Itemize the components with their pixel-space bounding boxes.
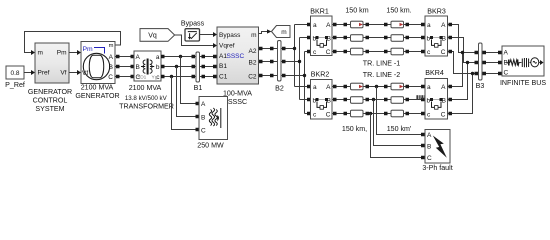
block U1 generator control system (35, 43, 69, 83)
svg-text:b: b (427, 98, 431, 105)
wire: tap C to load C (172, 77, 200, 132)
svg-text:SSSC: SSSC (228, 98, 247, 106)
svg-text:B: B (201, 115, 205, 122)
wire: Vq to SSSC Vqref (175, 35, 217, 48)
block bypass source (185, 29, 200, 41)
svg-text:INFINITE BUS: INFINITE BUS (500, 79, 546, 87)
svg-text:B2: B2 (249, 60, 257, 67)
breaker BKR3 (425, 16, 448, 56)
wire: BKR4 A up to bus row A (448, 51, 465, 88)
svg-text:A: A (427, 132, 432, 139)
wire: gen B to transformer B (115, 65, 134, 69)
block T1 transformer 2100 MVA (134, 51, 161, 81)
svg-text:C: C (201, 128, 206, 135)
svg-text:B2: B2 (275, 85, 284, 93)
block G1 synchronous generator 2100 MVA (81, 42, 115, 84)
svg-text:A: A (201, 101, 206, 108)
svg-text:A: A (441, 84, 446, 91)
svg-text:A: A (136, 54, 141, 61)
svg-text:P_Ref: P_Ref (5, 81, 25, 89)
svg-text:C: C (504, 70, 509, 77)
svg-text:B: B (427, 144, 431, 151)
svg-text:b: b (156, 64, 160, 71)
label generator (75, 84, 119, 100)
svg-text:GENERATOR: GENERATOR (28, 88, 72, 96)
svg-text:150 km: 150 km (345, 6, 368, 14)
greeked annotation near BKR4 (416, 95, 425, 99)
svg-text:2100 MVA: 2100 MVA (129, 84, 162, 92)
svg-text:150 km': 150 km' (387, 125, 412, 133)
svg-text:BKR2: BKR2 (311, 71, 330, 79)
wire: tap A to load A (181, 57, 200, 106)
wire: line2 mid C to fault C (371, 114, 425, 160)
svg-text:C: C (441, 112, 446, 119)
svg-text:100-MVA: 100-MVA (223, 90, 252, 98)
block SSSC 100 MVA (217, 27, 259, 84)
transmission line 1 phase C (333, 48, 426, 55)
goto tag m (272, 26, 291, 38)
svg-text:b: b (427, 36, 431, 43)
svg-text:A2: A2 (249, 48, 257, 55)
wire: 0.8 to Pref (24, 70, 35, 75)
svg-text:B1: B1 (194, 84, 203, 92)
svg-text:C: C (441, 49, 446, 56)
svg-text:C: C (108, 74, 113, 81)
svg-text:a: a (313, 84, 317, 91)
transmission line 1 phase A (333, 21, 426, 28)
label SSSC (223, 90, 252, 107)
svg-text:a: a (156, 54, 160, 61)
label generator control system (28, 88, 72, 113)
constant block P_Ref 0.8 (6, 66, 24, 79)
wire: transformer b to SSSC B1 through bus B1 (161, 65, 217, 69)
svg-text:C: C (326, 49, 331, 56)
wire: gen C to transformer C (115, 75, 134, 79)
label transformer (119, 84, 174, 110)
bus bar B3 with row pads (475, 43, 499, 80)
svg-text:GENERATOR: GENERATOR (75, 92, 119, 100)
svg-text:D1: D1 (140, 75, 146, 81)
svg-text:250 MW: 250 MW (197, 142, 224, 150)
wire: BKR3 B down to bus row B (448, 36, 475, 63)
svg-text:Pm: Pm (83, 46, 94, 53)
svg-text:Yg: Yg (152, 75, 158, 81)
wire: BKR3 A down to bus row A (448, 23, 475, 53)
svg-text:Pref: Pref (38, 70, 50, 77)
svg-text:CONTROL: CONTROL (33, 96, 68, 104)
wire: line2 mid A to fault A (377, 87, 425, 137)
breaker BKR1 (311, 16, 333, 56)
svg-text:C2: C2 (248, 74, 257, 81)
svg-text:0.8: 0.8 (10, 70, 19, 77)
svg-text:2100 MVA: 2100 MVA (81, 84, 114, 92)
block 3-phase fault (425, 130, 450, 164)
svg-text:A: A (504, 50, 509, 57)
svg-text:BKR1: BKR1 (310, 7, 329, 15)
wire: SSSC A2 to junction and BKR1 a / BKR2 a (259, 23, 312, 89)
svg-text:C: C (427, 155, 432, 162)
wire: SSSC C2 to junction and BKR1 c / BKR2 c (259, 50, 312, 116)
svg-text:Bypass: Bypass (219, 32, 241, 39)
svg-text:a: a (427, 22, 431, 29)
wire: tap B to load B (177, 67, 200, 119)
svg-text:A: A (441, 22, 446, 29)
svg-text:BKR3: BKR3 (427, 7, 446, 15)
svg-text:TR. LINE -2: TR. LINE -2 (363, 71, 401, 79)
block load 250 MW (199, 97, 228, 140)
svg-text:B3: B3 (476, 82, 485, 90)
svg-text:SYSTEM: SYSTEM (35, 105, 64, 113)
wire: BKR3 C down to bus row C (448, 50, 475, 74)
wire: SSSC B2 to junction and BKR1 b / BKR2 b (259, 36, 312, 102)
wire: line2 mid B to fault B (374, 100, 425, 148)
svg-text:3-Ph fault: 3-Ph fault (422, 164, 452, 172)
transmission line 2 phase C (333, 110, 426, 117)
svg-text:m: m (251, 32, 256, 39)
wire: GCS Pm to generator Pm (69, 50, 81, 55)
svg-text:TR. LINE -1: TR. LINE -1 (363, 60, 401, 68)
transmission line 1 phase B (333, 35, 426, 42)
svg-text:A: A (109, 54, 114, 61)
wire: transformer a to SSSC A1 through bus B1 (161, 55, 217, 59)
svg-text:B: B (109, 64, 113, 71)
transmission line 2 phase B (333, 97, 426, 104)
svg-text:a: a (427, 84, 431, 91)
wire: BKR4 B up to bus row B (448, 61, 470, 101)
wire: generator m feedback to GCS m input (25, 32, 121, 56)
svg-text:13.8 kV/500 kV: 13.8 kV/500 kV (125, 95, 168, 102)
wire: GCS Vf to generator Vf (69, 70, 81, 75)
wire: bypass block to SSSC Bypass (200, 32, 218, 37)
bus bar B2 (278, 41, 282, 82)
svg-text:A: A (326, 84, 331, 91)
svg-text:m: m (281, 29, 286, 36)
svg-text:SSSC: SSSC (227, 53, 245, 60)
block infinite bus (498, 46, 544, 77)
svg-text:C1: C1 (219, 74, 228, 81)
breaker BKR2 (311, 80, 333, 120)
transmission line 2 phase A (333, 83, 426, 90)
svg-text:Vqref: Vqref (219, 43, 235, 50)
svg-text:C: C (326, 112, 331, 119)
breaker BKR4 (425, 79, 448, 120)
wire: SSSC m to goto tag m (259, 29, 272, 33)
svg-text:Vq: Vq (148, 32, 157, 39)
svg-text:BKR4: BKR4 (425, 69, 444, 77)
svg-text:a: a (313, 22, 317, 29)
wire: gen A to transformer A (115, 55, 134, 59)
wire: transformer c to SSSC C1 through bus B1 (161, 75, 217, 79)
wire: BKR4 C up to bus row C (448, 72, 475, 115)
svg-text:Pm: Pm (57, 50, 67, 57)
svg-text:150 km,: 150 km, (342, 125, 367, 133)
svg-text:B1: B1 (219, 63, 227, 70)
svg-text:Bypass: Bypass (181, 20, 205, 28)
svg-text:B: B (136, 64, 140, 71)
bus bar B1 (196, 52, 200, 82)
svg-text:Vf: Vf (60, 70, 66, 77)
svg-text:TRANSFORMER: TRANSFORMER (119, 102, 174, 110)
svg-text:A: A (326, 22, 331, 29)
svg-text:150 km.: 150 km. (386, 6, 411, 14)
svg-text:m: m (38, 50, 43, 57)
svg-text:m: m (109, 43, 114, 49)
from tag Vq (140, 29, 175, 42)
